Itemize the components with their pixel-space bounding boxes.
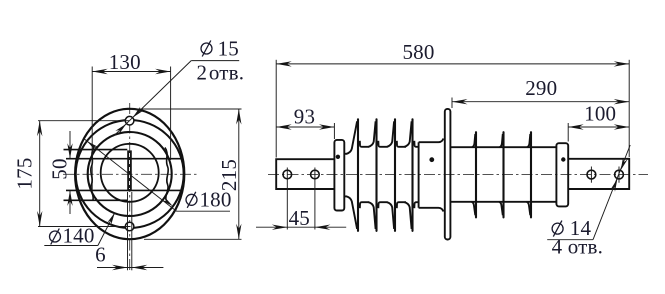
- feature line bottom (end view): [64, 199, 128, 201]
- left block rivet dot: [336, 155, 340, 159]
- dimension 580: [275, 60, 277, 158]
- shed circle D140 (end view): [88, 132, 172, 216]
- svg-text:580: 580: [402, 40, 434, 64]
- weathershed R3 D140: [527, 134, 530, 147]
- oval flange disc outline (end view, 215 tall): [75, 109, 184, 239]
- svg-text:215: 215: [217, 159, 241, 191]
- left end fitting block: [334, 140, 344, 211]
- svg-text:2: 2: [196, 61, 207, 85]
- bolt hole bottom D15: [125, 222, 134, 231]
- centerline horizontal (side view axis): [268, 174, 648, 176]
- svg-text:130: 130: [109, 50, 141, 74]
- dimension 6 (slot width): [127, 192, 129, 270]
- feature line top (end view): [64, 149, 128, 151]
- svg-text:93: 93: [294, 104, 315, 128]
- dimension 290: [451, 98, 453, 109]
- dimension 45: [286, 168, 288, 230]
- right end fitting block: [556, 143, 568, 206]
- left mounting bar: [276, 159, 334, 189]
- dimension 175: [38, 120, 129, 122]
- svg-text:15: 15: [218, 36, 239, 60]
- left bar hole 2: [311, 170, 320, 179]
- svg-text:290: 290: [525, 76, 557, 100]
- hub rivet dot: [429, 157, 434, 162]
- dimension 100: [567, 123, 569, 142]
- bolt hole top D15: [125, 116, 134, 125]
- svg-text:6: 6: [95, 243, 106, 267]
- right mounting bar: [568, 159, 629, 189]
- svg-text:100: 100: [584, 101, 616, 125]
- label D180 with diameter leader: [186, 194, 197, 205]
- right bar hole 1: [587, 170, 596, 179]
- svg-text:180: 180: [199, 188, 231, 212]
- svg-text:4 отв.: 4 отв.: [552, 235, 604, 259]
- svg-text:отв.: отв.: [209, 61, 244, 85]
- label D140 with leader: [50, 231, 61, 242]
- shed circle D180 (end view): [76, 120, 184, 228]
- svg-text:45: 45: [289, 206, 310, 230]
- svg-text:140: 140: [62, 224, 94, 248]
- dimension 130: [91, 67, 93, 191]
- dimension 50: [69, 131, 71, 159]
- central slot 6 wide: [127, 150, 132, 191]
- trunk (left group): [344, 153, 347, 155]
- label D15 2 holes with leader to top bolt hole: [201, 43, 212, 54]
- wavy sheath profile right (end view): [165, 148, 168, 201]
- svg-text:175: 175: [13, 157, 37, 189]
- centerline horizontal (end view axis): [63, 173, 199, 175]
- left bar hole 1: [283, 170, 292, 179]
- weathershed R1 D140: [472, 134, 475, 147]
- svg-text:50: 50: [48, 158, 72, 179]
- dimension 93: [333, 123, 335, 139]
- centerline vertical (end view axis): [129, 103, 131, 271]
- label D14 4 holes with leader to right bar hole: [552, 223, 563, 234]
- trunk (right group): [451, 146, 557, 148]
- inner sheath circle (end view): [101, 144, 159, 202]
- dimension 215: [131, 108, 242, 110]
- weathershed R2 D140: [500, 134, 503, 147]
- bar edge line top (end view, 50 dim feature): [66, 158, 183, 160]
- bar edge line bottom (end view): [66, 189, 183, 191]
- weathershed L4 D180: [405, 121, 412, 147]
- right bar hole 2: [615, 170, 624, 179]
- central oval disc (edge-on): [445, 109, 451, 240]
- weathershed L3 D180: [387, 121, 394, 147]
- right block rivet dot: [561, 157, 565, 161]
- center hub fitting: [419, 139, 444, 212]
- weathershed L1 D180: [347, 121, 358, 154]
- weathershed L2 D180: [369, 121, 376, 147]
- wavy sheath profile left (end view): [91, 148, 94, 201]
